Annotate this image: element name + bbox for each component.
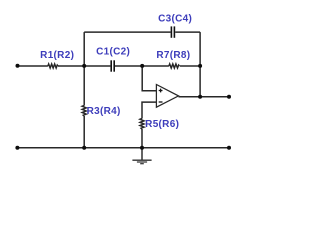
wire node B down to noninverting input [142, 66, 156, 91]
node B junction [140, 64, 144, 68]
wire R5 to bottom rail [141, 129, 143, 148]
wire C1 to node B [115, 65, 142, 67]
wire R3 to bottom rail [83, 116, 85, 148]
wire node A up to feedback path [83, 32, 85, 66]
wire node A down to R3 [83, 66, 85, 106]
svg-text:C3(C4): C3(C4) [158, 14, 192, 25]
wire inverting input to R5 [142, 102, 156, 118]
wire top feedback right segment [175, 31, 200, 33]
node feedback/rail junction [198, 64, 202, 68]
resistor R3(R4) [82, 106, 86, 116]
node A junction [82, 64, 86, 68]
wire bottom rail [17, 147, 229, 149]
op-amp minus sign [159, 101, 163, 103]
capacitor C3(C4) [171, 26, 174, 37]
resistor R1(R2) [48, 64, 58, 68]
resistor R7(R8) [169, 64, 179, 68]
wire R7 to node C [180, 65, 200, 67]
wire node B to R7 [142, 65, 169, 67]
node R5 ground junction [140, 146, 144, 150]
svg-text:R5(R6): R5(R6) [145, 119, 179, 130]
svg-text:C1(C2): C1(C2) [96, 46, 130, 57]
resistor R5(R6) [140, 119, 144, 129]
wire op-amp output [179, 96, 230, 98]
op-amp U1 [156, 85, 178, 108]
node bottom-left terminal [15, 146, 19, 150]
wire top feedback left segment [84, 31, 170, 33]
capacitor C1(C2) [111, 60, 114, 71]
wire feedback vertical down to output node [199, 32, 201, 97]
node output junction [198, 95, 202, 99]
svg-text:R7(R8): R7(R8) [156, 50, 190, 61]
wire node A to C1 [84, 65, 110, 67]
node bottom-right terminal [227, 146, 231, 150]
node input terminal [16, 64, 20, 68]
node output terminal [227, 95, 231, 99]
wire input rail left [18, 65, 48, 67]
svg-text:R3(R4): R3(R4) [87, 106, 121, 117]
op-amp plus sign [159, 89, 163, 93]
ground [132, 148, 151, 164]
node R3 ground junction [82, 146, 86, 150]
svg-text:R1(R2): R1(R2) [40, 50, 74, 61]
wire R1 to node A [58, 65, 84, 67]
